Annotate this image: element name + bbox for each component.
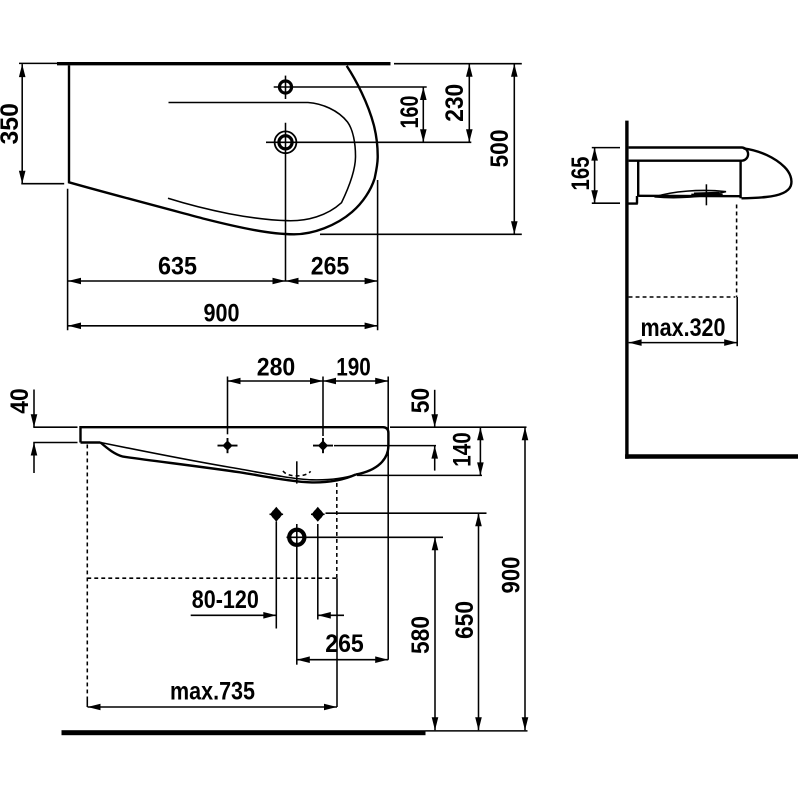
floor thin extension right [426,730,528,732]
drain leader line to 230 dim [266,141,471,143]
svg-text:80-120: 80-120 [192,586,259,614]
svg-text:580: 580 [407,616,435,654]
svg-text:40: 40 [6,388,34,414]
bolt leader to 650 dim [326,512,487,514]
extension line for max.735 right [336,578,338,707]
dimension max.735 (front) [88,706,338,708]
underside wall stub (side) [629,196,638,204]
faucet cross right (front) [313,445,333,447]
dimension 500 (plan right) [513,64,515,235]
dimension 80-120 (front) [191,614,277,616]
svg-text:900: 900 [204,300,240,328]
dimension 50 (front right) [434,390,436,427]
dimension 230 (plan right) [468,64,470,143]
svg-text:max.320: max.320 [641,314,726,342]
rim outline (front) [81,427,389,445]
rim profile (side) [629,148,749,161]
extension line for max.320 [736,297,738,346]
bowl upper bottom curve (front) [101,443,356,480]
drain lens (side) [655,190,727,197]
dimension 350 (plan left) [19,62,57,64]
floor line (side) [625,454,798,458]
wall line (plan) [57,62,391,65]
hidden depth dotted lines (side) [736,205,738,298]
bolt hole right (front) [312,507,325,522]
drain centerline down (front) [296,552,298,665]
bowl lower bottom curve (front) [101,443,356,483]
basin outer outline (plan) [69,65,378,234]
waist leader right (front) [357,474,482,476]
bolt centerline left down [275,522,277,629]
underside line (side) [638,195,740,198]
svg-text:140: 140 [449,432,477,467]
dimension max.320 (side) [629,342,738,344]
dimension 40 (front left) [33,426,77,428]
svg-text:900: 900 [497,557,525,594]
drain slot dark (side) [694,192,720,197]
svg-text:50: 50 [407,388,435,414]
svg-text:500: 500 [486,130,514,168]
dimension 140 (front right) [479,427,481,475]
rim top leader right (front) [390,426,527,428]
dimension 580 (front right) [434,537,436,730]
svg-text:230: 230 [441,84,469,122]
hidden drain arc (front) [283,471,311,476]
drain symbol (plan) [275,131,297,153]
svg-text:635: 635 [158,252,197,280]
dimension 900 (plan) [68,325,378,327]
floor line (front) [62,730,426,735]
drain symbol (front) [289,530,304,545]
svg-text:265: 265 [325,630,364,658]
mounting area dotted right (front) [336,483,338,578]
svg-text:650: 650 [451,601,479,639]
wall line (side) [625,121,628,459]
dimension 160 (plan right) [422,87,424,142]
svg-text:max.735: max.735 [170,677,255,705]
faucet hole symbol (plan) [279,81,291,93]
left hidden edge dashed (front) [86,445,88,700]
faucet leader right (front) [334,445,436,447]
svg-text:280: 280 [257,354,296,382]
dimension 165 (side) [592,147,620,149]
bowl front vertical (side) [739,161,741,199]
dimension 635 / 265 (plan) [68,280,378,282]
bolt hole left (front) [270,507,283,522]
rim bottom left (front) [81,441,101,443]
left corner solid for max.735 [86,699,88,707]
svg-text:350: 350 [0,103,24,145]
svg-text:165: 165 [567,156,595,190]
drain centerline down to 635 dim [285,123,287,281]
svg-text:265: 265 [311,252,350,280]
mounting area dotted bottom (front) [87,577,336,579]
basin inner bowl contour (plan) [168,103,356,221]
faucet cross left (front) [218,445,238,447]
outer bulge curve (side) [742,148,792,198]
dimension 900 (front right) [524,427,526,730]
rim back vertical (side) [637,161,639,196]
leader bottom tangent to 500 dim [320,233,522,235]
drain centerline vertical (front upper) [296,461,298,483]
extension line left edge (plan) [67,189,69,330]
svg-text:160: 160 [396,96,424,129]
leader top right from wall end [394,63,522,65]
right corner arc (front) [356,445,389,475]
faucet leader line to 160 dim [274,86,427,88]
bolt centerline right down [317,524,319,620]
drain centerline cross (side) [705,184,707,205]
dimension 280 / 190 (front top) [227,377,229,435]
svg-text:190: 190 [336,354,371,382]
dimension 265 (front) [297,659,388,661]
dimension 650 (front right) [478,513,480,730]
extension line right edge (plan) [377,180,379,330]
